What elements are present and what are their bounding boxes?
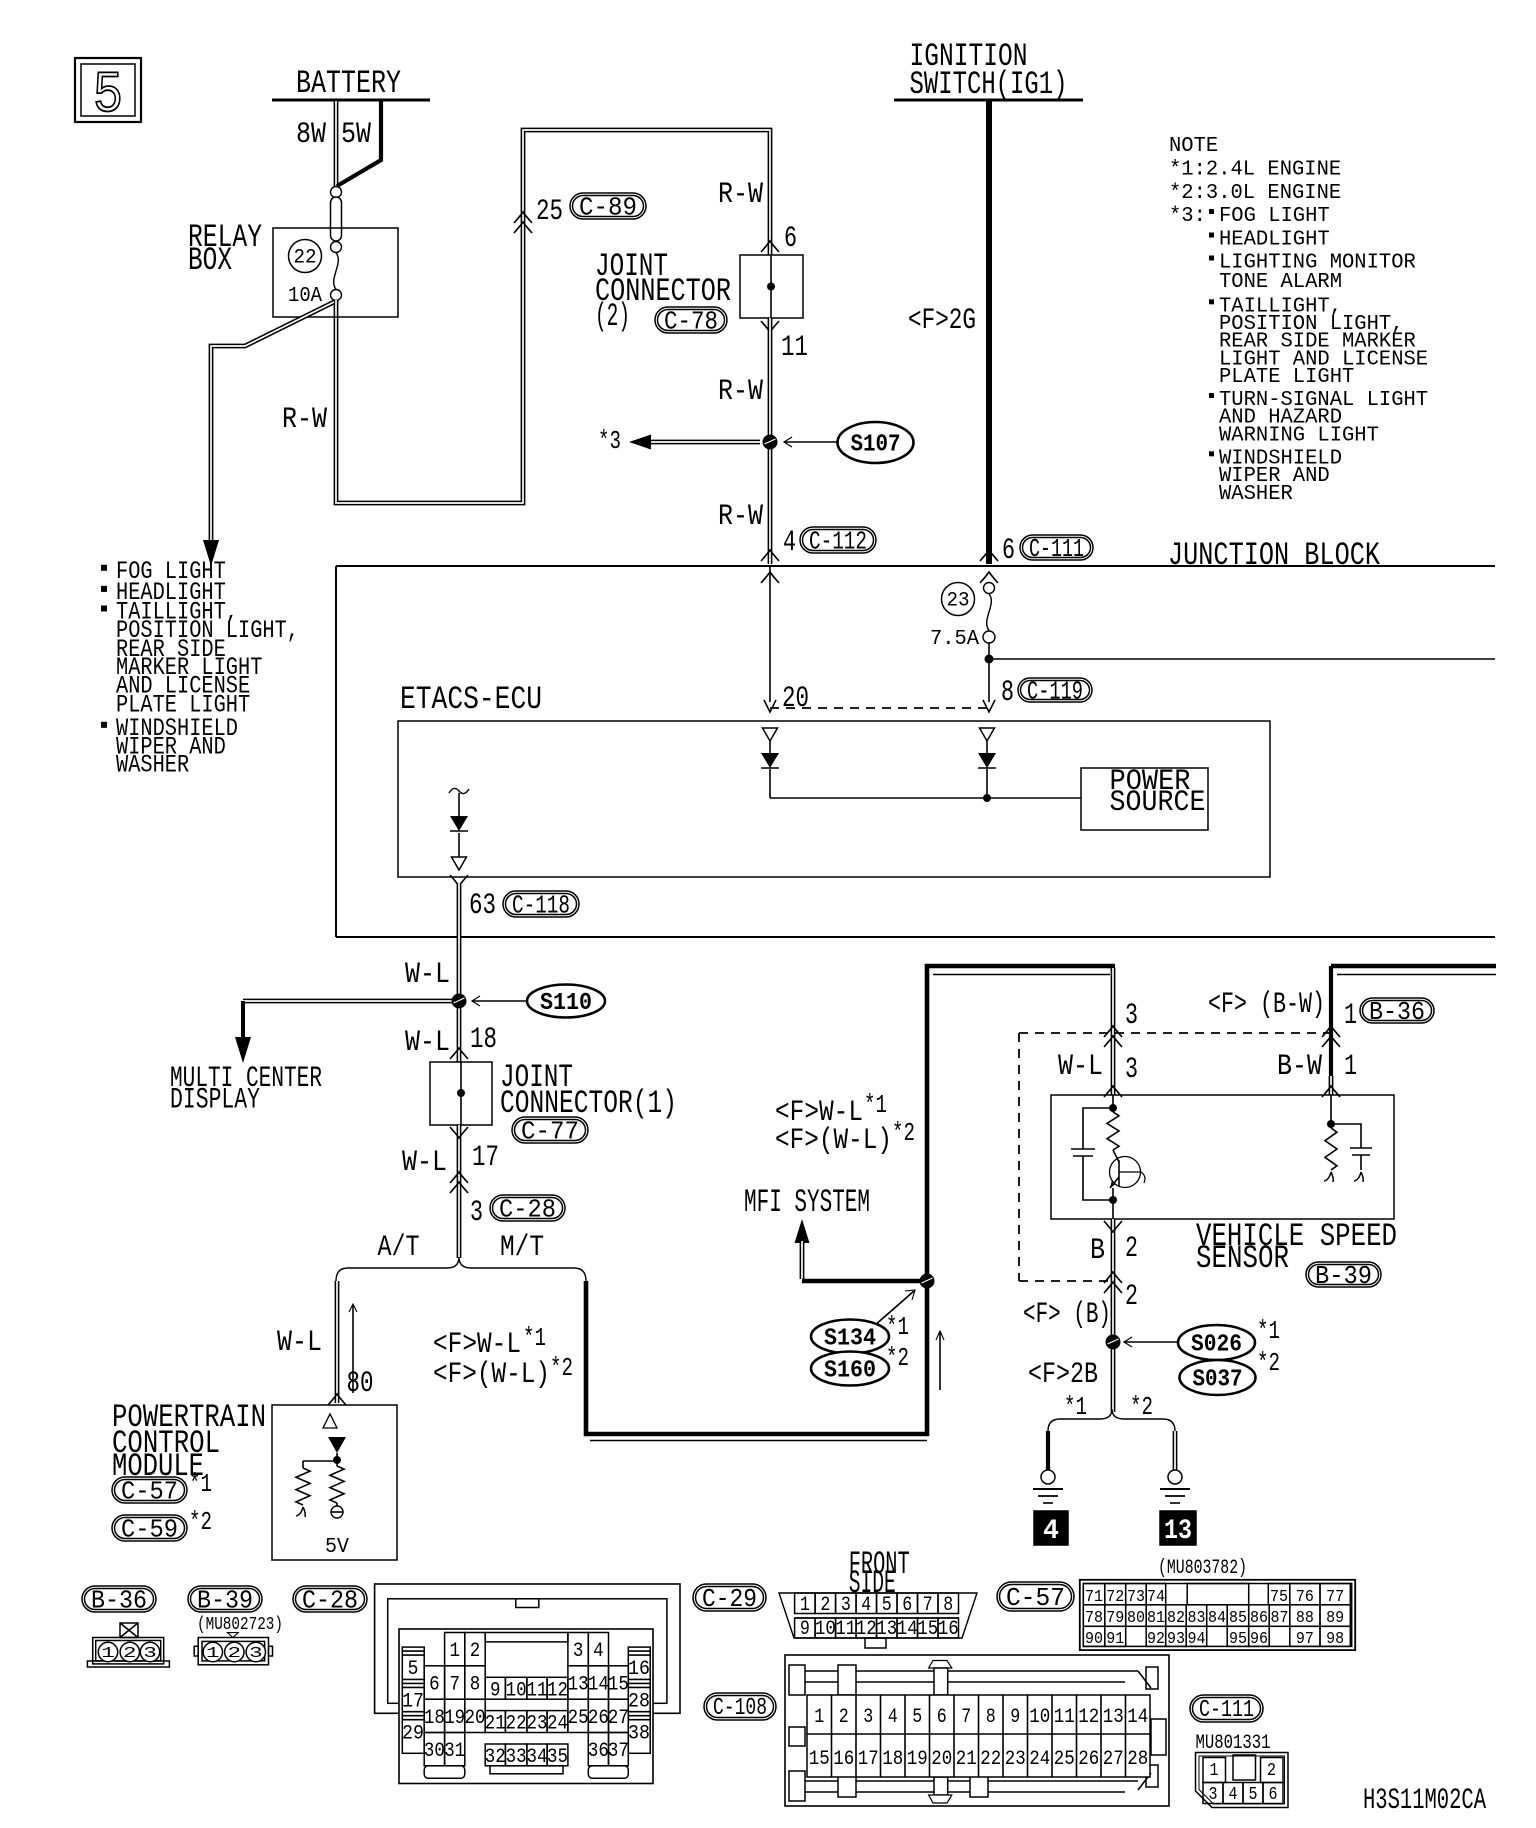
C-108 connector body <box>785 1655 1169 1806</box>
svg-text:4: 4 <box>1043 1516 1059 1547</box>
svg-text:8: 8 <box>986 1706 996 1729</box>
fog light / headlight consumer list <box>101 565 107 571</box>
svg-text:7.5A: 7.5A <box>930 628 979 651</box>
vehicle speed sensor box <box>1051 1095 1394 1219</box>
svg-text:31: 31 <box>444 1740 465 1763</box>
B-39 connector housing <box>198 1638 268 1665</box>
svg-text:24: 24 <box>547 1713 568 1736</box>
svg-text:17: 17 <box>472 1141 499 1175</box>
splice label S160 <box>811 1352 889 1386</box>
connector label C-108 <box>704 1693 776 1720</box>
wire R-W joint connector (2) to junction block <box>768 318 773 564</box>
joint connector (1) internal wire <box>460 1062 462 1125</box>
svg-text:<F>2B: <F>2B <box>1028 1358 1098 1392</box>
connector label C-57 pcm <box>112 1477 187 1503</box>
connector label C-119 <box>1018 678 1092 702</box>
svg-text:92: 92 <box>1147 1630 1165 1649</box>
signal direction arrow <box>352 1305 354 1393</box>
VSS dashed connector box <box>1019 1032 1331 1034</box>
svg-text:3: 3 <box>470 1196 483 1230</box>
svg-text:88: 88 <box>1296 1609 1314 1628</box>
ETACS pin 8 input triangle <box>980 728 995 741</box>
VSS output transistor <box>1110 1157 1141 1188</box>
wire B-W thin segment <box>1329 1076 1334 1095</box>
connector label C-59 pcm <box>112 1515 187 1541</box>
svg-text:<F>2G: <F>2G <box>908 304 976 338</box>
svg-text:13: 13 <box>568 1674 589 1697</box>
connector label C-28 bottom <box>293 1586 367 1612</box>
B-39 pointer triangle <box>228 1633 239 1638</box>
pin 8 arrow <box>983 700 995 712</box>
svg-text:<F>W-L: <F>W-L <box>433 1328 521 1362</box>
svg-text:12: 12 <box>856 1618 877 1641</box>
joint connector (2) box <box>740 255 803 318</box>
arrow to *3 <box>629 435 651 450</box>
B-36 pass chevrons left <box>1104 1026 1122 1037</box>
battery bus bar <box>272 99 430 102</box>
svg-text:WASHER: WASHER <box>1219 483 1293 506</box>
svg-text:C-57: C-57 <box>121 1476 178 1506</box>
svg-text:5: 5 <box>882 1594 892 1617</box>
svg-text:*1: *1 <box>1064 1392 1087 1422</box>
svg-text:4: 4 <box>593 1640 604 1663</box>
ignition bus bar <box>894 99 1083 102</box>
connector C-89 pass-through chevrons <box>514 212 532 223</box>
svg-text:94: 94 <box>1187 1630 1205 1649</box>
svg-text:M/T: M/T <box>500 1231 544 1265</box>
svg-text:11: 11 <box>781 331 808 365</box>
svg-text:B-39: B-39 <box>197 1585 253 1615</box>
svg-text:*1: *1 <box>523 1323 546 1353</box>
arrow to fog light list <box>203 540 219 566</box>
junction block entry flares C-111 <box>980 550 998 561</box>
junction block left border <box>335 566 337 937</box>
svg-text:SWITCH(IG1): SWITCH(IG1) <box>910 66 1068 103</box>
svg-text:<F> (B-W): <F> (B-W) <box>1208 988 1325 1022</box>
svg-text:B-36: B-36 <box>1369 997 1425 1027</box>
svg-text:26: 26 <box>588 1707 609 1730</box>
svg-text:20: 20 <box>931 1748 952 1771</box>
svg-text:2: 2 <box>1267 1761 1276 1781</box>
svg-text:5: 5 <box>93 64 123 129</box>
svg-text:36: 36 <box>588 1740 609 1763</box>
B-39 terminal 1 <box>203 1642 222 1661</box>
svg-text:25: 25 <box>568 1707 589 1730</box>
svg-text:*3: *3 <box>598 426 621 456</box>
S110 pointer line <box>472 1000 527 1002</box>
pin 11 exit flare <box>761 321 779 332</box>
svg-text:TONE ALARM: TONE ALARM <box>1219 271 1342 294</box>
wire W-L ETACS to S110 and joint connector (1) <box>457 884 462 1062</box>
svg-text:8: 8 <box>943 1594 953 1617</box>
connector label B-39 inline <box>1306 1262 1381 1287</box>
ground symbol *2 <box>1160 1488 1190 1490</box>
S026 pointer line <box>1124 1341 1178 1343</box>
svg-text:*2: *2 <box>1257 1348 1280 1378</box>
svg-text:*1:2.4L ENGINE: *1:2.4L ENGINE <box>1169 159 1341 182</box>
svg-text:*2: *2 <box>1130 1392 1153 1422</box>
pin 20 arrow <box>764 700 776 712</box>
svg-text:27: 27 <box>608 1707 629 1730</box>
svg-text:14: 14 <box>1127 1706 1148 1729</box>
svg-text:24: 24 <box>1029 1748 1050 1771</box>
svg-text:2: 2 <box>1125 1232 1138 1266</box>
svg-text:9: 9 <box>1010 1706 1020 1729</box>
svg-text:25: 25 <box>1054 1748 1075 1771</box>
wire W-L VSS feed <box>1111 968 1116 1095</box>
svg-text:MFI SYSTEM: MFI SYSTEM <box>744 1184 870 1221</box>
B-36 pass chevrons right <box>1322 1026 1340 1037</box>
svg-text:23: 23 <box>1005 1748 1026 1771</box>
svg-text:79: 79 <box>1106 1609 1124 1628</box>
splice label S037 <box>1180 1360 1256 1395</box>
svg-text:82: 82 <box>1167 1609 1185 1628</box>
svg-text:18: 18 <box>882 1748 903 1771</box>
splice label S107 <box>838 422 914 463</box>
svg-text:23: 23 <box>946 590 969 613</box>
svg-text:5: 5 <box>408 1658 419 1681</box>
svg-text:R-W: R-W <box>718 375 763 409</box>
connector label B-36 bottom <box>82 1586 156 1612</box>
svg-text:1: 1 <box>1344 1050 1357 1084</box>
connector label C-77 <box>512 1117 588 1143</box>
wire to multi center display <box>243 999 455 1004</box>
svg-text:S107: S107 <box>851 432 901 459</box>
svg-text:JUNCTION BLOCK: JUNCTION BLOCK <box>1168 537 1381 574</box>
svg-text:MU801331: MU801331 <box>1196 1732 1271 1755</box>
svg-text:22: 22 <box>506 1713 527 1736</box>
svg-text:37: 37 <box>608 1740 629 1763</box>
fuse 23 lower terminal <box>983 631 995 643</box>
svg-text:84: 84 <box>1208 1609 1226 1628</box>
wire thick riser to VSS <box>927 966 1115 1436</box>
pcm internal node dot <box>336 1453 338 1461</box>
wire thick B-W feed <box>1331 964 1496 969</box>
wire 5W thick lead <box>337 101 381 186</box>
svg-text:5W: 5W <box>341 118 371 152</box>
pin 63 exit flare <box>450 875 468 886</box>
pin 80 entry flare <box>328 1394 346 1405</box>
svg-text:H3S11M02CA: H3S11M02CA <box>1363 1784 1486 1818</box>
svg-text:2: 2 <box>1125 1280 1138 1314</box>
connector label C-111 bottom <box>1190 1695 1263 1722</box>
joint connector (2) internal wire <box>770 255 772 318</box>
svg-text:BATTERY: BATTERY <box>296 65 401 102</box>
VSS exit flare <box>1104 1221 1122 1232</box>
VSS entry flare left <box>1104 1086 1122 1097</box>
B-36 terminal 3 <box>140 1642 159 1661</box>
arrow to multi center display <box>235 1037 251 1063</box>
VSS node dot top <box>1109 1104 1117 1112</box>
svg-text:8: 8 <box>470 1674 481 1697</box>
svg-text:87: 87 <box>1271 1609 1289 1628</box>
VSS internal left wire <box>1112 1095 1114 1112</box>
svg-text:16: 16 <box>833 1748 854 1771</box>
ignition feed thick wire <box>986 101 992 564</box>
svg-text:30: 30 <box>424 1740 445 1763</box>
pcm 5V source terminal <box>331 1506 343 1518</box>
joint connector (1) box <box>430 1062 492 1125</box>
svg-text:2: 2 <box>839 1706 849 1729</box>
ground ref box 13 <box>1160 1511 1196 1545</box>
svg-text:C-111: C-111 <box>1029 534 1084 564</box>
svg-text:HEADLIGHT: HEADLIGHT <box>1219 229 1330 252</box>
connector label C-112 <box>800 527 876 553</box>
wire pin 20 internal <box>769 567 771 702</box>
B-36 connector housing <box>93 1638 164 1664</box>
wire diode to pin 63 <box>458 833 460 857</box>
arrow to MFI system <box>795 1219 810 1243</box>
svg-text:SENSOR: SENSOR <box>1196 1240 1289 1277</box>
B-36 terminal 1 <box>98 1642 117 1661</box>
wire MFI branch <box>800 1241 805 1279</box>
junction block top border <box>336 565 1495 567</box>
VSS right capacitor <box>1331 1124 1361 1148</box>
svg-text:4: 4 <box>1229 1785 1238 1805</box>
svg-text:78: 78 <box>1085 1609 1103 1628</box>
svg-text:6: 6 <box>902 1594 912 1617</box>
fusible link capsule <box>331 187 342 198</box>
svg-text:90: 90 <box>1085 1630 1103 1649</box>
svg-text:B-36: B-36 <box>91 1585 147 1615</box>
fuse 23 element squiggle <box>987 594 992 631</box>
svg-text:W-L: W-L <box>1058 1050 1103 1084</box>
wire branch *3 <box>651 440 760 445</box>
svg-text:(MU803782): (MU803782) <box>1158 1557 1247 1580</box>
A/T M/T brace <box>336 1257 586 1281</box>
svg-text:C-119: C-119 <box>1027 676 1083 706</box>
svg-text:BOX: BOX <box>188 242 232 279</box>
svg-text:*3:: *3: <box>1169 205 1206 228</box>
svg-text:3: 3 <box>249 1645 263 1662</box>
svg-text:1: 1 <box>800 1594 810 1617</box>
wire W-L to PCM <box>335 1281 340 1403</box>
svg-text:ETACS-ECU: ETACS-ECU <box>400 681 542 718</box>
splice junction dot S026 <box>1106 1335 1121 1350</box>
svg-text:C-77: C-77 <box>521 1116 579 1146</box>
S107 pointer line <box>784 441 838 443</box>
svg-text:18: 18 <box>470 1023 497 1057</box>
svg-text:1: 1 <box>449 1640 460 1663</box>
svg-text:B-W: B-W <box>1277 1050 1322 1084</box>
svg-text:63: 63 <box>469 889 496 923</box>
svg-text:80: 80 <box>347 1367 374 1401</box>
connector label B-39 bottom <box>188 1586 262 1612</box>
svg-text:WARNING LIGHT: WARNING LIGHT <box>1219 424 1379 447</box>
svg-text:6: 6 <box>784 222 797 256</box>
B-39 terminal 3 <box>246 1642 265 1661</box>
splice S107 junction dot <box>763 435 778 450</box>
splice label S134 <box>811 1320 889 1354</box>
svg-text:83: 83 <box>1187 1609 1205 1628</box>
svg-text:C-89: C-89 <box>579 192 637 222</box>
svg-text:4: 4 <box>861 1594 871 1617</box>
svg-text:W-L: W-L <box>277 1326 322 1360</box>
svg-text:S134: S134 <box>824 1326 876 1353</box>
svg-text:89: 89 <box>1326 1609 1344 1628</box>
svg-text:28: 28 <box>628 1690 650 1713</box>
B-39 terminal 2 <box>225 1642 244 1661</box>
svg-text:8W: 8W <box>296 118 326 152</box>
svg-text:<F>(W-L): <F>(W-L) <box>775 1124 892 1158</box>
svg-text:19: 19 <box>907 1748 928 1771</box>
svg-text:5: 5 <box>1249 1785 1258 1805</box>
svg-text:25: 25 <box>536 195 563 229</box>
VSS node dot right <box>1327 1120 1335 1128</box>
C-111 connector body <box>1196 1753 1289 1808</box>
B-36 terminal 2 <box>120 1642 139 1661</box>
svg-text:C-29: C-29 <box>702 1584 757 1614</box>
svg-text:38: 38 <box>628 1723 650 1746</box>
svg-text:S110: S110 <box>540 990 592 1017</box>
svg-text:*1: *1 <box>1257 1316 1280 1346</box>
svg-text:(2): (2) <box>595 298 630 335</box>
svg-text:C-57: C-57 <box>1006 1583 1065 1613</box>
svg-text:C-78: C-78 <box>664 306 718 336</box>
connector label C-118 <box>503 891 579 917</box>
relay box <box>273 228 398 317</box>
page number box 5 <box>75 58 141 122</box>
pcm pull resistor left <box>303 1460 337 1462</box>
svg-text:6: 6 <box>937 1706 947 1729</box>
VSS entry flare right <box>1322 1086 1340 1097</box>
svg-text:2: 2 <box>123 1645 137 1662</box>
svg-text:1: 1 <box>101 1645 115 1662</box>
svg-text:95: 95 <box>1229 1630 1247 1649</box>
connector label C-111 top <box>1020 535 1093 560</box>
ground ref box 4 <box>1034 1511 1068 1545</box>
wire fuse 23 output <box>988 643 990 702</box>
svg-text:C-108: C-108 <box>713 1695 767 1722</box>
svg-text:<F>(W-L): <F>(W-L) <box>433 1358 550 1392</box>
wire R-W from relay box to joint connector (2) <box>336 130 770 503</box>
svg-text:6: 6 <box>1002 534 1015 568</box>
svg-text:S160: S160 <box>824 1358 876 1385</box>
direction arrow up <box>939 1332 941 1390</box>
svg-text:C-112: C-112 <box>809 526 867 556</box>
junction block entry flares C-112 <box>761 550 779 561</box>
dashed internal link <box>770 707 989 709</box>
ETACS pin 63 output triangle <box>452 857 467 870</box>
svg-text:*1: *1 <box>886 1312 909 1342</box>
svg-text:3: 3 <box>1125 999 1138 1033</box>
svg-text:1: 1 <box>1210 1761 1219 1781</box>
svg-text:21: 21 <box>956 1748 977 1771</box>
B-36 keyway X-square <box>120 1623 138 1638</box>
svg-text:NOTE: NOTE <box>1169 135 1218 158</box>
svg-text:2: 2 <box>470 1640 481 1663</box>
svg-text:16: 16 <box>628 1658 650 1681</box>
connector label C-29 bottom <box>693 1584 766 1611</box>
pcm clamp diode <box>328 1437 346 1453</box>
svg-text:21: 21 <box>485 1713 506 1736</box>
wire 8W fusible link lead <box>334 101 339 188</box>
svg-text:3: 3 <box>573 1640 584 1663</box>
svg-text:R-W: R-W <box>718 500 763 534</box>
connector label C-57 bottom <box>997 1582 1074 1611</box>
svg-text:10: 10 <box>506 1679 527 1702</box>
ground terminal *1 <box>1041 1470 1055 1484</box>
svg-text:*2: *2 <box>886 1343 909 1373</box>
svg-text:SOURCE: SOURCE <box>1110 786 1206 820</box>
svg-text:C-111: C-111 <box>1199 1697 1254 1724</box>
svg-text:FOG LIGHT: FOG LIGHT <box>1219 205 1330 228</box>
connector C-28 pass chevrons <box>450 1172 468 1183</box>
svg-text:4: 4 <box>888 1706 898 1729</box>
junction dot fuse 23 <box>985 655 994 664</box>
connector label C-89 <box>570 193 646 219</box>
VSS capacitor branch <box>1083 1108 1113 1149</box>
connector label B-36 inline <box>1360 998 1434 1023</box>
svg-text:1: 1 <box>814 1706 824 1729</box>
circled 23 fuse number <box>942 583 975 616</box>
C-29 connector body <box>779 1593 977 1638</box>
svg-text:17: 17 <box>858 1748 879 1771</box>
svg-text:A/T: A/T <box>378 1231 420 1265</box>
connector label C-28 inline <box>490 1195 565 1221</box>
svg-text:7: 7 <box>961 1706 971 1729</box>
svg-text:*2: *2 <box>550 1353 573 1383</box>
fuse 22 lower terminal <box>331 290 342 301</box>
connector label C-78 <box>655 307 727 333</box>
fuse 23 upper terminal <box>984 583 995 594</box>
svg-text:85: 85 <box>1229 1609 1247 1628</box>
svg-text:W-L: W-L <box>402 1146 447 1180</box>
svg-text:B: B <box>1090 1234 1105 1268</box>
junction block bottom border <box>336 936 1495 938</box>
pin 18 entry flare <box>450 1048 468 1059</box>
internal output squiggle <box>449 788 469 793</box>
circled 22 fuse number <box>289 240 322 273</box>
svg-text:13: 13 <box>876 1618 897 1641</box>
svg-text:*2:3.0L ENGINE: *2:3.0L ENGINE <box>1169 182 1341 205</box>
svg-text:2: 2 <box>228 1645 242 1662</box>
svg-text:80: 80 <box>1127 1609 1145 1628</box>
svg-text:5: 5 <box>912 1706 922 1729</box>
junction dot power source <box>983 794 991 802</box>
svg-text:11: 11 <box>1054 1706 1075 1729</box>
svg-text:(MU802723): (MU802723) <box>197 1615 283 1635</box>
wire M/T branch thick <box>586 1281 929 1434</box>
svg-text:8: 8 <box>1001 676 1014 710</box>
svg-text:23: 23 <box>527 1713 548 1736</box>
svg-text:15: 15 <box>809 1748 830 1771</box>
svg-text:28: 28 <box>1127 1748 1148 1771</box>
pin 6 entry flare <box>761 241 779 252</box>
VSS resistor <box>1107 1112 1119 1150</box>
wire diodes to power source <box>769 769 771 798</box>
C-28 pin body <box>399 1629 653 1784</box>
svg-text:20: 20 <box>465 1707 486 1730</box>
joint connector (1) dot <box>457 1089 465 1097</box>
svg-text:26: 26 <box>1078 1748 1099 1771</box>
svg-text:C-59: C-59 <box>121 1514 178 1544</box>
ground symbol *1 <box>1033 1488 1063 1490</box>
svg-text:W-L: W-L <box>405 1026 450 1060</box>
svg-text:12: 12 <box>547 1679 568 1702</box>
svg-text:C-118: C-118 <box>512 890 570 920</box>
svg-text:27: 27 <box>1103 1748 1124 1771</box>
svg-text:9: 9 <box>490 1679 501 1702</box>
S134 pointer line <box>874 1291 914 1326</box>
svg-text:3: 3 <box>1125 1053 1138 1087</box>
svg-text:*2: *2 <box>892 1118 915 1148</box>
multi center display drop <box>241 1001 245 1040</box>
svg-text:7: 7 <box>449 1674 460 1697</box>
svg-text:S037: S037 <box>1193 1367 1243 1394</box>
svg-text:*2: *2 <box>189 1507 212 1537</box>
splice junction dot MFI <box>920 1274 935 1289</box>
